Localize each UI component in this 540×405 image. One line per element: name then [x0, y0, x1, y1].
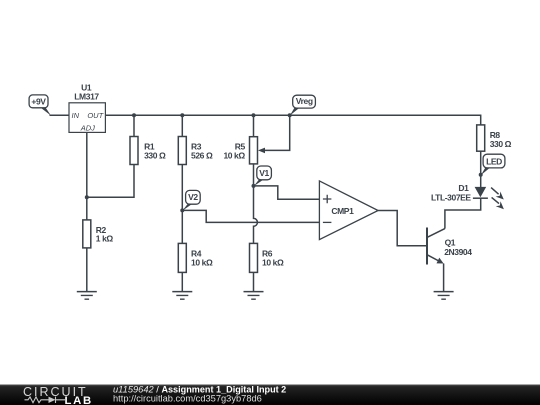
- resistor R2: [83, 220, 91, 248]
- resistor R6: [250, 243, 258, 272]
- op-amp U1 box LM317: [69, 103, 105, 133]
- flag Vreg: [290, 95, 316, 115]
- flag V2: [183, 190, 201, 210]
- svg-text:1 kΩ: 1 kΩ: [96, 234, 114, 244]
- svg-text:OUT: OUT: [87, 111, 104, 120]
- wire U1 ADJ down to R2: [86, 132, 88, 220]
- wire node V2 to comparator minus input with hop: [182, 210, 319, 222]
- svg-text:+9V: +9V: [31, 97, 46, 107]
- svg-text:LTL-307EE: LTL-307EE: [431, 193, 471, 203]
- svg-text:V2: V2: [188, 192, 198, 202]
- potentiometer R5: [250, 137, 266, 164]
- flag V1: [254, 166, 272, 186]
- ground below R4: [172, 292, 192, 300]
- wire top rail OUT to R8: [105, 115, 480, 125]
- svg-text:10 kΩ: 10 kΩ: [223, 150, 245, 160]
- transistor Q1 2N3904: [427, 228, 445, 265]
- svg-text:2N3904: 2N3904: [444, 247, 472, 257]
- ground below Q1: [434, 292, 454, 300]
- diode D1 LED LTL-307EE: [473, 187, 504, 209]
- node ADJ-R1-R2 junction: [85, 195, 89, 199]
- wire D1 cathode to Q1 collector: [445, 198, 481, 229]
- wire R2 bottom to ground: [86, 248, 88, 292]
- wire R1 bottom to ADJ node: [87, 165, 134, 198]
- node rail-R5 junction: [252, 113, 256, 117]
- node rail-wiper Vreg junction: [288, 113, 292, 117]
- wire comparator output to Q1 base: [378, 211, 426, 246]
- svg-text:LAB: LAB: [65, 395, 93, 405]
- svg-text:330 Ω: 330 Ω: [144, 151, 166, 161]
- wire R3 bottom through node V2 to R4: [181, 165, 183, 244]
- node LED: [479, 173, 483, 177]
- wire R3 top stub: [181, 115, 183, 136]
- svg-text:Vreg: Vreg: [296, 96, 313, 106]
- svg-text:http://circuitlab.com/cd357g3y: http://circuitlab.com/cd357g3yb78d6: [113, 393, 262, 403]
- resistor R3: [178, 137, 186, 165]
- svg-text:ADJ: ADJ: [80, 124, 95, 133]
- wire Q1 emitter to ground: [443, 264, 445, 292]
- wire R5 top stub: [253, 115, 255, 136]
- wire R1 top stub: [133, 115, 135, 136]
- svg-text:V1: V1: [259, 168, 269, 178]
- wire R5 wiper to top rail: [265, 115, 290, 150]
- logo wire with resistor and diode glyph: [25, 397, 66, 403]
- ground below R2: [77, 292, 97, 300]
- svg-text:526 Ω: 526 Ω: [191, 151, 213, 161]
- ground below R6: [244, 292, 264, 300]
- resistor R1: [130, 137, 138, 165]
- svg-text:CMP1: CMP1: [331, 206, 354, 216]
- node rail-R3 junction: [180, 113, 184, 117]
- wire +9V to U1 IN: [50, 114, 70, 116]
- svg-text:Q1: Q1: [445, 237, 456, 247]
- flag LED: [481, 154, 505, 175]
- node V2: [180, 208, 184, 212]
- wire R4 bottom to ground: [181, 272, 183, 291]
- resistor R4: [178, 243, 186, 272]
- wire node V1 to comparator plus input: [254, 186, 320, 199]
- node rail-R1 junction: [132, 113, 136, 117]
- svg-text:10 kΩ: 10 kΩ: [191, 258, 213, 268]
- op-amp CMP1 comparator: [319, 181, 378, 240]
- resistor R8: [477, 125, 485, 151]
- svg-text:10 kΩ: 10 kΩ: [262, 258, 284, 268]
- svg-text:LM317: LM317: [74, 92, 99, 102]
- wire R5 bottom through node V1 to R6: [254, 164, 258, 244]
- svg-text:330 Ω: 330 Ω: [490, 139, 512, 149]
- node V1: [252, 184, 256, 188]
- svg-text:IN: IN: [72, 111, 80, 120]
- flag +9V: [29, 95, 51, 116]
- wire R6 bottom to ground: [253, 272, 255, 291]
- svg-text:LED: LED: [486, 156, 502, 166]
- wire R8 bottom through LED node to D1 anode: [480, 151, 482, 187]
